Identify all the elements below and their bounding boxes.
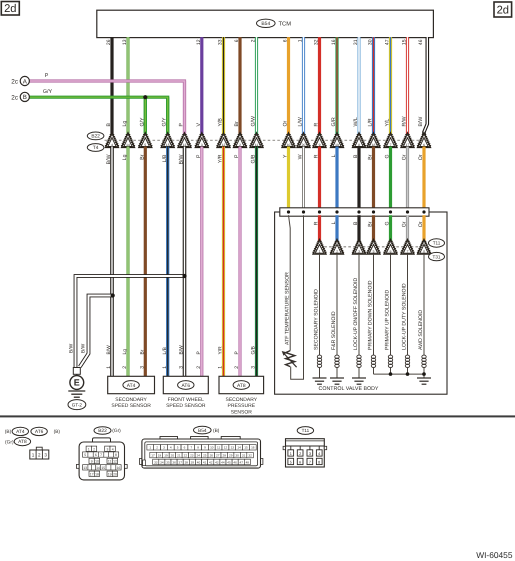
svg-text:6: 6 [423,143,425,147]
svg-text:(B): (B) [213,428,220,434]
svg-text:P: P [196,154,202,158]
svg-text:CONTROL VALVE BODY: CONTROL VALVE BODY [319,386,379,392]
svg-text:B: B [353,221,359,225]
svg-text:34: 34 [160,460,164,464]
svg-text:TCM: TCM [279,20,292,27]
svg-text:AT8: AT8 [237,383,246,389]
svg-text:Lg: Lg [122,154,128,160]
svg-text:4: 4 [112,447,114,451]
svg-text:SPEED SENSOR: SPEED SENSOR [166,403,206,409]
svg-text:PRIMARY UP SOLENOID: PRIMARY UP SOLENOID [385,289,391,350]
svg-text:18: 18 [158,454,162,458]
svg-text:39: 39 [191,460,195,464]
svg-text:AT6: AT6 [181,383,190,389]
svg-text:Br: Br [368,154,374,159]
svg-text:11: 11 [108,460,112,464]
svg-text:5: 5 [373,250,375,254]
svg-text:7: 7 [390,143,392,147]
svg-text:2d: 2d [4,3,16,15]
svg-text:46: 46 [233,460,237,464]
svg-text:18: 18 [95,472,99,476]
svg-text:1: 1 [106,366,112,369]
svg-text:12: 12 [196,39,202,45]
svg-text:10: 10 [95,460,99,464]
svg-text:35: 35 [166,460,170,464]
svg-text:4: 4 [170,446,172,450]
svg-text:SECONDARY: SECONDARY [115,397,147,403]
svg-text:14: 14 [237,446,241,450]
svg-text:T11: T11 [433,241,441,246]
svg-text:Br: Br [140,349,146,354]
svg-text:FRONT WHEEL: FRONT WHEEL [168,397,205,403]
svg-text:2: 2 [239,143,241,147]
svg-text:3: 3 [358,250,360,254]
svg-text:31: 31 [353,39,359,45]
svg-text:40: 40 [197,460,201,464]
svg-text:G/B: G/B [251,154,257,163]
svg-text:47: 47 [385,39,391,45]
svg-text:20: 20 [302,143,306,147]
svg-text:AT4: AT4 [16,429,25,435]
svg-text:8: 8 [197,446,199,450]
svg-text:7: 7 [309,460,311,464]
svg-text:V: V [196,123,202,127]
svg-text:5: 5 [290,460,292,464]
svg-text:G: G [385,222,391,226]
svg-text:B/W: B/W [69,343,75,353]
svg-text:R: R [314,154,320,158]
svg-text:31: 31 [242,454,246,458]
svg-text:2: 2 [234,366,240,369]
svg-text:LOCK-UP DUTY SOLENOID: LOCK-UP DUTY SOLENOID [402,283,408,350]
svg-text:6: 6 [184,446,186,450]
svg-text:30: 30 [235,454,239,458]
svg-text:Y/B: Y/B [218,118,224,127]
svg-text:AT6: AT6 [35,429,44,435]
svg-text:25: 25 [203,454,207,458]
svg-text:G/B: G/B [251,346,257,354]
svg-text:4: 4 [318,452,320,456]
svg-text:8: 8 [358,143,360,147]
svg-text:15: 15 [166,143,170,147]
svg-text:(Gr): (Gr) [112,428,121,434]
svg-text:3: 3 [179,366,185,369]
svg-text:6: 6 [234,39,240,42]
svg-text:2: 2 [251,39,257,42]
svg-text:36: 36 [172,460,176,464]
svg-text:5: 5 [177,446,179,450]
svg-text:T11: T11 [302,428,310,433]
svg-text:F&R SOLENOID: F&R SOLENOID [331,311,337,350]
svg-text:W: W [298,154,304,159]
svg-text:Gr: Gr [402,154,408,160]
svg-text:26: 26 [106,39,112,45]
svg-text:32: 32 [248,454,252,458]
svg-text:3: 3 [140,366,146,369]
svg-text:Y/L: Y/L [385,119,391,127]
svg-text:43: 43 [215,460,219,464]
svg-text:9: 9 [204,446,206,450]
svg-text:2: 2 [336,250,338,254]
svg-text:18: 18 [372,143,376,147]
svg-text:Br: Br [368,221,374,226]
svg-text:2: 2 [299,452,301,456]
svg-text:14: 14 [96,466,100,470]
svg-text:Or: Or [418,221,424,227]
svg-text:4: 4 [111,143,113,147]
svg-text:2: 2 [93,447,95,451]
svg-text:B22: B22 [91,134,100,140]
svg-text:AWD SOLENOID: AWD SOLENOID [418,310,424,350]
svg-text:3: 3 [309,452,311,456]
svg-text:5: 5 [84,453,86,457]
svg-text:10: 10 [287,143,291,147]
svg-text:1: 1 [290,452,292,456]
svg-text:W/L: W/L [353,117,359,126]
svg-text:30: 30 [368,39,374,45]
svg-text:PRIMARY DOWN SOLENOID: PRIMARY DOWN SOLENOID [368,280,374,350]
svg-text:Y: Y [283,154,289,158]
svg-text:20: 20 [113,472,117,476]
svg-text:6: 6 [390,250,392,254]
svg-text:1: 1 [88,447,90,451]
svg-text:(B): (B) [54,429,61,435]
svg-text:37: 37 [178,460,182,464]
svg-text:Or: Or [283,120,289,126]
svg-text:2d: 2d [497,5,509,17]
svg-text:PRESSURE: PRESSURE [228,403,256,409]
svg-text:47: 47 [239,460,243,464]
svg-text:19: 19 [164,454,168,458]
svg-text:13: 13 [231,446,235,450]
svg-text:24: 24 [197,454,201,458]
svg-text:33: 33 [218,39,224,45]
svg-text:G/R: G/R [331,117,337,126]
svg-text:B/W: B/W [106,345,112,355]
svg-text:B54: B54 [261,21,270,27]
svg-text:12: 12 [113,460,117,464]
svg-text:R/W: R/W [402,116,408,126]
svg-text:10: 10 [210,446,214,450]
svg-text:17: 17 [151,454,155,458]
svg-text:P: P [45,73,49,79]
svg-text:B22: B22 [98,428,107,434]
svg-text:42: 42 [209,460,213,464]
svg-text:2: 2 [38,453,41,458]
svg-text:B: B [23,94,27,101]
svg-text:13: 13 [183,143,187,147]
svg-text:28: 28 [222,454,226,458]
svg-text:SENSOR: SENSOR [231,410,253,416]
svg-text:22: 22 [184,454,188,458]
svg-text:33: 33 [154,460,158,464]
svg-text:B/W: B/W [179,345,185,355]
svg-text:6: 6 [95,453,97,457]
svg-text:L/R: L/R [368,118,374,126]
svg-text:SECONDARY SOLENOID: SECONDARY SOLENOID [314,289,320,350]
svg-text:5: 5 [144,143,146,147]
svg-text:B54: B54 [198,428,207,434]
svg-text:1: 1 [32,453,35,458]
svg-text:P: P [234,154,240,158]
svg-text:15: 15 [244,446,248,450]
svg-text:L/W: L/W [298,117,304,126]
svg-text:P: P [196,351,202,354]
svg-text:16: 16 [251,446,255,450]
svg-text:AT4: AT4 [127,383,136,389]
svg-text:G/W: G/W [251,116,257,126]
svg-text:ATF TEMPERATURE SENSOR: ATF TEMPERATURE SENSOR [284,272,290,345]
svg-text:3: 3 [106,447,108,451]
svg-text:21: 21 [177,454,181,458]
svg-text:R: R [314,221,320,225]
svg-text:Lg: Lg [122,349,128,355]
svg-text:7: 7 [100,453,102,457]
svg-text:8: 8 [423,250,425,254]
svg-text:(Gr): (Gr) [5,439,14,445]
svg-text:(B): (B) [5,429,12,435]
svg-text:B: B [106,123,112,127]
svg-text:15: 15 [101,466,105,470]
svg-text:T31: T31 [433,254,441,259]
svg-text:2c: 2c [11,95,19,102]
svg-text:7: 7 [407,250,409,254]
svg-text:3: 3 [201,143,203,147]
svg-text:6: 6 [283,39,289,42]
svg-text:1: 1 [319,250,321,254]
svg-text:1: 1 [149,446,151,450]
svg-text:45: 45 [227,460,231,464]
svg-text:13: 13 [122,39,128,45]
svg-text:17: 17 [90,472,94,476]
svg-text:B/W: B/W [179,154,185,164]
svg-text:R: R [314,123,320,127]
svg-text:1: 1 [162,366,168,369]
svg-text:2: 2 [196,366,202,369]
svg-text:Or: Or [418,154,424,160]
svg-text:3: 3 [163,446,165,450]
svg-text:12: 12 [222,143,226,147]
svg-text:16: 16 [331,39,337,45]
svg-text:2c: 2c [11,79,19,86]
svg-text:11: 11 [255,143,259,147]
svg-text:15: 15 [402,39,408,45]
svg-text:SECONDARY: SECONDARY [226,397,258,403]
svg-text:26: 26 [210,454,214,458]
svg-text:20: 20 [171,454,175,458]
svg-text:1: 1 [218,366,224,369]
svg-text:G/Y: G/Y [43,89,53,95]
svg-text:3: 3 [44,453,47,458]
svg-text:P: P [234,351,240,354]
svg-text:2: 2 [122,366,128,369]
svg-text:WI-60455: WI-60455 [476,550,513,560]
svg-text:L/B: L/B [162,154,168,162]
svg-text:14: 14 [126,143,130,147]
svg-text:17: 17 [406,143,410,147]
svg-text:Br: Br [140,154,146,159]
svg-text:GT-2: GT-2 [72,402,83,407]
svg-text:44: 44 [221,460,225,464]
svg-text:B: B [353,154,359,158]
svg-text:B/W: B/W [106,154,112,164]
svg-text:41: 41 [203,460,207,464]
svg-text:L/B: L/B [162,347,168,354]
svg-text:9: 9 [91,460,93,464]
svg-text:46: 46 [418,39,424,45]
svg-text:23: 23 [190,454,194,458]
svg-text:SPEED SENSOR: SPEED SENSOR [111,403,151,409]
svg-text:Lg: Lg [122,121,128,127]
svg-text:L: L [331,221,337,224]
svg-text:12: 12 [224,446,228,450]
svg-text:E: E [74,378,80,388]
svg-text:27: 27 [216,454,220,458]
svg-text:8: 8 [115,453,117,457]
svg-text:32: 32 [314,39,320,45]
svg-text:T4: T4 [93,145,99,151]
svg-text:G: G [385,155,391,159]
svg-text:6: 6 [299,460,301,464]
svg-text:16: 16 [117,466,121,470]
svg-text:Y/R: Y/R [218,346,224,355]
svg-text:7: 7 [190,446,192,450]
svg-text:38: 38 [185,460,189,464]
svg-text:48: 48 [246,460,250,464]
svg-text:AT8: AT8 [18,439,27,445]
svg-text:Br: Br [234,121,240,126]
svg-text:29: 29 [229,454,233,458]
svg-text:3: 3 [251,366,257,369]
svg-text:8: 8 [318,460,320,464]
svg-text:L: L [331,154,337,157]
svg-text:B/W: B/W [418,117,424,127]
svg-text:2: 2 [156,446,158,450]
svg-text:B/W: B/W [81,343,87,353]
svg-text:13: 13 [83,466,87,470]
svg-text:19: 19 [108,472,112,476]
svg-text:19: 19 [335,143,339,147]
svg-text:LOCK-UP ON/OFF SOLENOID: LOCK-UP ON/OFF SOLENOID [353,277,359,350]
svg-text:Gr: Gr [402,221,408,227]
svg-text:11: 11 [217,446,220,450]
svg-text:9: 9 [319,143,321,147]
svg-text:Y/R: Y/R [218,154,224,163]
svg-text:1: 1 [298,39,304,42]
